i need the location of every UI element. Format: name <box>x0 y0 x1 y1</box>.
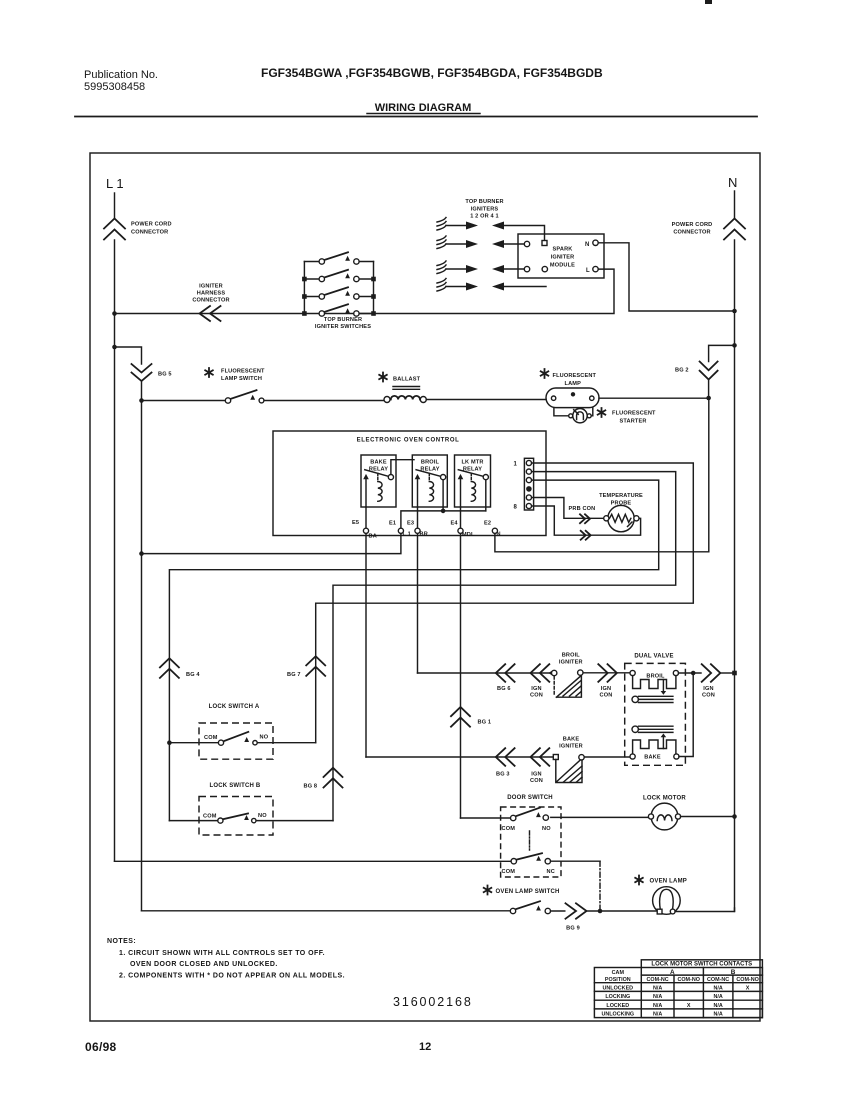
connector IGN CON (broil left) <box>530 664 553 698</box>
svg-text:BG 7: BG 7 <box>287 672 301 678</box>
svg-text:IGN: IGN <box>601 686 611 692</box>
igniter E-2 <box>437 236 524 249</box>
terminal E1 L1 <box>389 521 411 538</box>
svg-text:L 1: L 1 <box>106 176 124 191</box>
svg-text:BAKE: BAKE <box>370 460 387 466</box>
electronic oven control box <box>273 431 546 536</box>
svg-text:N/A: N/A <box>653 986 662 992</box>
broil relay K2 <box>412 455 447 511</box>
svg-text:CON: CON <box>530 778 543 784</box>
svg-text:E5: E5 <box>352 520 359 526</box>
svg-text:X: X <box>746 986 750 992</box>
svg-text:2. COMPONENTS WITH * DO NOT AP: 2. COMPONENTS WITH * DO NOT APPEAR ON AL… <box>119 973 345 980</box>
svg-text:IGN: IGN <box>703 686 713 692</box>
svg-text:LOCKED: LOCKED <box>606 1003 629 1009</box>
wire relay common bus <box>401 511 486 528</box>
svg-text:LOCK MOTOR: LOCK MOTOR <box>643 796 686 802</box>
svg-text:NC: NC <box>547 869 555 875</box>
scan artifact mark <box>705 0 712 4</box>
wire pin2 to BG8 <box>333 472 676 821</box>
svg-text:OVEN LAMP: OVEN LAMP <box>650 879 687 885</box>
svg-text:N/A: N/A <box>713 1012 722 1018</box>
terminal E5 BA <box>352 520 377 540</box>
junction lock motor/N rail <box>732 814 737 819</box>
wire L1 feed to E1 <box>142 533 401 553</box>
connector BG 5 <box>132 364 172 381</box>
svg-text:NO: NO <box>542 826 551 832</box>
svg-text:L 1: L 1 <box>403 532 411 538</box>
svg-text:LK MTR: LK MTR <box>461 460 483 466</box>
wire N rail <box>734 240 736 911</box>
connector BG 7 <box>287 656 325 678</box>
wire L1 drop <box>114 193 116 218</box>
junction broil relay/common <box>441 509 446 514</box>
junction oven lamp branch <box>598 909 603 914</box>
svg-text:IGNITER: IGNITER <box>559 744 583 750</box>
svg-text:FGF354BGWA ,FGF354BGWB, FGF354: FGF354BGWA ,FGF354BGWB, FGF354BGDA, FGF3… <box>261 66 603 80</box>
svg-text:LOCKING: LOCKING <box>605 994 630 1000</box>
svg-text:STARTER: STARTER <box>620 419 647 425</box>
svg-text:UNLOCKING: UNLOCKING <box>601 1012 634 1018</box>
igniter E-4 <box>437 279 546 292</box>
svg-text:E4: E4 <box>451 521 459 527</box>
svg-text:N: N <box>728 175 737 190</box>
svg-text:LOCK MOTOR SWITCH CONTACTS: LOCK MOTOR SWITCH CONTACTS <box>651 962 752 968</box>
svg-text:BROIL: BROIL <box>421 460 440 466</box>
power cord connector (N) <box>672 219 745 240</box>
svg-text:LOCK SWITCH B: LOCK SWITCH B <box>210 783 261 789</box>
oven lamp switch S3 <box>142 886 565 914</box>
svg-text:MDL: MDL <box>462 532 475 538</box>
svg-text:06/98: 06/98 <box>85 1040 117 1054</box>
svg-text:B: B <box>731 969 736 976</box>
wire switch left rail <box>303 262 305 314</box>
junction BG5/lamp row <box>139 398 144 403</box>
border frame <box>90 153 760 1021</box>
wire switch right rail <box>373 262 375 314</box>
svg-text:316002168: 316002168 <box>393 995 473 1009</box>
connector BG 9 <box>566 903 658 931</box>
broil valve coil <box>630 670 679 694</box>
svg-text:CON: CON <box>530 693 543 699</box>
connector BG 6 <box>496 664 515 692</box>
svg-text:X: X <box>687 1003 691 1009</box>
svg-text:BAKE: BAKE <box>563 737 580 743</box>
connector IGN CON (broil right) <box>598 664 617 698</box>
wire pin6 to probe return <box>532 506 641 535</box>
svg-text:IGN: IGN <box>531 686 541 692</box>
svg-text:COM-NO: COM-NO <box>677 977 699 983</box>
connector BG 8 <box>304 768 343 790</box>
svg-text:BA: BA <box>369 534 377 540</box>
svg-text:IGNITER: IGNITER <box>551 255 575 261</box>
svg-text:CAM: CAM <box>612 970 625 976</box>
wire L1 bus <box>115 269 615 313</box>
bake valve coil <box>630 734 679 761</box>
svg-text:N/A: N/A <box>713 986 722 992</box>
svg-text:FLUORESCENT: FLUORESCENT <box>553 373 597 379</box>
svg-text:ELECTRONIC OVEN CONTROL: ELECTRONIC OVEN CONTROL <box>357 438 460 444</box>
junction N/spark module <box>732 309 737 314</box>
svg-text:8: 8 <box>513 505 517 511</box>
svg-text:BG 6: BG 6 <box>497 686 511 692</box>
temperature probe RT1 <box>599 493 643 532</box>
svg-text:TOP BURNER: TOP BURNER <box>324 317 362 323</box>
power cord connector (L1) <box>104 219 172 240</box>
svg-text:CONNECTOR: CONNECTOR <box>192 298 229 304</box>
svg-text:N/A: N/A <box>653 1012 662 1018</box>
lock switch A <box>171 704 316 759</box>
svg-text:BR: BR <box>420 532 428 538</box>
svg-text:E2: E2 <box>484 521 491 527</box>
svg-text:12: 12 <box>419 1041 431 1053</box>
connector BG 1 <box>451 707 491 727</box>
svg-text:IGNITER SWITCHES: IGNITER SWITCHES <box>315 324 371 330</box>
junction squares left rail <box>302 277 307 282</box>
bake row wire <box>366 756 630 758</box>
wire module N to N-rail <box>598 243 734 311</box>
svg-text:PRB CON: PRB CON <box>569 506 596 512</box>
fluorescent starter <box>554 408 656 425</box>
EOC edge connector P1 <box>513 458 533 510</box>
junction N/BG2 <box>732 343 737 348</box>
switch SW1 <box>304 261 373 263</box>
svg-text:BG 5: BG 5 <box>158 372 172 378</box>
svg-text:NO: NO <box>258 813 267 819</box>
svg-text:COM-NC: COM-NC <box>647 977 669 983</box>
junction L1/BG5 branch <box>112 345 117 350</box>
svg-text:WIRING DIAGRAM: WIRING DIAGRAM <box>375 102 472 114</box>
header publication block <box>84 66 603 114</box>
svg-text:POSITION: POSITION <box>605 977 631 983</box>
header underline <box>367 113 480 115</box>
svg-text:COM: COM <box>502 826 516 832</box>
svg-text:MODULE: MODULE <box>550 263 575 269</box>
top burner igniters label <box>465 199 503 220</box>
svg-text:BROIL: BROIL <box>646 674 665 680</box>
svg-text:COM: COM <box>203 814 217 820</box>
wire pin5 to probe <box>532 498 604 519</box>
svg-text:HARNESS: HARNESS <box>197 291 226 297</box>
svg-text:1. CIRCUIT SHOWN WITH ALL CONT: 1. CIRCUIT SHOWN WITH ALL CONTROLS SET T… <box>119 950 325 957</box>
terminal E4 MDL <box>451 521 475 539</box>
junction L1/bus <box>112 311 117 316</box>
switch SW2 <box>304 278 373 280</box>
spark igniter module U1 <box>518 234 604 278</box>
broil valve plunger <box>632 696 673 702</box>
terminal E2 N <box>484 521 501 538</box>
connector IGN CON (valve right) <box>702 664 737 698</box>
svg-text:BG 2: BG 2 <box>675 368 689 374</box>
svg-text:OVEN DOOR CLOSED AND UNLOCKED.: OVEN DOOR CLOSED AND UNLOCKED. <box>130 961 278 968</box>
svg-text:LAMP: LAMP <box>565 381 582 387</box>
svg-text:E3: E3 <box>407 521 414 527</box>
svg-text:N: N <box>497 532 501 538</box>
svg-text:POWER CORD: POWER CORD <box>672 222 713 228</box>
door switch <box>115 795 651 909</box>
wire lamp right to E2 neutral feed <box>495 398 709 552</box>
svg-text:BG 3: BG 3 <box>496 772 510 778</box>
lock switch B <box>169 783 333 835</box>
junction lamp right <box>706 396 711 401</box>
junction BG5/L1 feed <box>139 551 144 556</box>
svg-text:CON: CON <box>702 693 715 699</box>
svg-text:TEMPERATURE: TEMPERATURE <box>599 493 643 499</box>
svg-text:1: 1 <box>513 462 517 468</box>
oven lamp DS2 <box>635 876 734 915</box>
svg-text:CON: CON <box>600 693 613 699</box>
bake relay K1 <box>361 455 414 507</box>
svg-text:IGNITER: IGNITER <box>199 284 223 290</box>
lock motor switch contacts table <box>594 960 762 1018</box>
connector BG 2 <box>675 345 735 398</box>
connector BG 3 <box>496 748 515 777</box>
wire BG5 rail <box>141 381 143 911</box>
svg-text:BG 9: BG 9 <box>566 926 580 932</box>
svg-text:COM: COM <box>502 869 516 875</box>
notes <box>107 938 345 980</box>
dual valve <box>625 654 686 766</box>
switch SW3 <box>304 296 373 298</box>
svg-text:COM-NC: COM-NC <box>707 977 729 983</box>
bake igniter <box>553 737 584 783</box>
connector IGN CON (bake left) <box>530 748 549 784</box>
svg-text:BROIL: BROIL <box>562 653 581 659</box>
svg-text:POWER CORD: POWER CORD <box>131 222 172 228</box>
svg-text:BG 1: BG 1 <box>478 720 492 726</box>
svg-text:BG 8: BG 8 <box>304 784 318 790</box>
switch SW4 <box>359 313 374 315</box>
wire E4 MDL to door switch <box>460 507 462 818</box>
svg-text:IGN: IGN <box>531 772 541 778</box>
svg-text:UNLOCKED: UNLOCKED <box>603 986 634 992</box>
lock motor M1 <box>643 796 734 830</box>
svg-text:TOP BURNER: TOP BURNER <box>465 199 503 205</box>
svg-text:N/A: N/A <box>653 1003 662 1009</box>
svg-text:IGNITER: IGNITER <box>559 660 583 666</box>
svg-text:N/A: N/A <box>713 1003 722 1009</box>
svg-text:L: L <box>586 268 590 274</box>
wire bake valve return <box>679 673 693 757</box>
svg-text:BG 4: BG 4 <box>186 672 200 678</box>
ballast L1 <box>379 373 546 403</box>
igniter E-3 <box>437 261 524 274</box>
svg-text:A: A <box>670 969 675 976</box>
lock motor relay K3 <box>455 455 491 511</box>
svg-text:IGNITERS: IGNITERS <box>471 207 499 213</box>
wire pin1 to BG7 <box>316 463 694 743</box>
svg-text:LAMP SWITCH: LAMP SWITCH <box>221 376 262 382</box>
wire E5 BA to bake row <box>365 507 367 757</box>
svg-text:SPARK: SPARK <box>553 247 573 253</box>
svg-text:NO: NO <box>260 735 269 741</box>
wire broil valve to IGN CON <box>679 672 702 674</box>
fluorescent lamp switch S2 <box>142 368 385 403</box>
svg-text:N: N <box>585 242 590 248</box>
svg-text:DUAL VALVE: DUAL VALVE <box>634 654 673 660</box>
wire E3 BR to broil row <box>417 507 419 673</box>
top burner igniter switches block <box>302 252 376 330</box>
svg-text:BAKE: BAKE <box>644 755 661 761</box>
wire N drop <box>734 191 736 218</box>
broil row wire <box>418 672 630 674</box>
connector BG 4 <box>160 658 200 678</box>
svg-text:COM: COM <box>204 735 218 741</box>
svg-text:DOOR SWITCH: DOOR SWITCH <box>507 795 553 801</box>
junction valve return <box>691 671 696 676</box>
svg-text:N/A: N/A <box>653 994 662 1000</box>
igniter harness connector <box>192 284 229 322</box>
junction BG4/lock switch A <box>167 740 172 745</box>
header rule <box>75 116 757 118</box>
svg-text:NOTES:: NOTES: <box>107 938 136 945</box>
igniter E-1 <box>437 218 547 246</box>
svg-text:LOCK SWITCH A: LOCK SWITCH A <box>209 704 260 710</box>
svg-text:FLUORESCENT: FLUORESCENT <box>221 369 265 375</box>
connector PRB CON <box>569 506 596 540</box>
svg-text:5995308458: 5995308458 <box>84 81 145 93</box>
svg-text:BALLAST: BALLAST <box>393 377 421 383</box>
svg-text:CONNECTOR: CONNECTOR <box>673 230 710 236</box>
svg-text:FLUORESCENT: FLUORESCENT <box>612 411 656 417</box>
svg-text:N/A: N/A <box>713 994 722 1000</box>
wire BG5 branch <box>115 347 142 364</box>
svg-text:COM-NO: COM-NO <box>736 977 758 983</box>
junction squares right rail <box>371 277 376 282</box>
svg-text:1 2 OR 4 1: 1 2 OR 4 1 <box>470 214 499 220</box>
svg-text:Publication No.: Publication No. <box>84 69 158 81</box>
svg-text:CONNECTOR: CONNECTOR <box>131 230 168 236</box>
svg-text:OVEN LAMP SWITCH: OVEN LAMP SWITCH <box>496 889 560 895</box>
wire pin3 to BG4 <box>169 480 658 820</box>
svg-text:E1: E1 <box>389 521 396 527</box>
fluorescent lamp DS1 <box>541 369 599 408</box>
broil igniter <box>552 653 584 698</box>
bake valve plunger <box>632 726 673 732</box>
wire lamp to BG2 <box>599 397 709 399</box>
wire L1 rail <box>114 240 116 861</box>
terminal E3 BR <box>407 521 428 538</box>
